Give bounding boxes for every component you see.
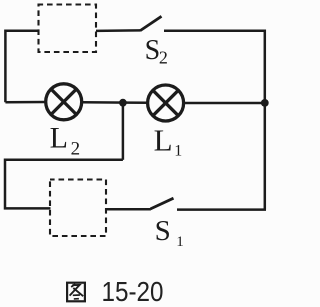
wire junction drop [122,103,125,160]
caption character 图 (drawn) [67,283,85,302]
wire S1 to right vertical [177,208,266,211]
switch S2 lever [140,16,161,30]
wire middle left segment [5,101,46,104]
battery placeholder dashed box top [39,5,97,53]
svg-text:15-20: 15-20 [102,276,164,307]
node junction dot right [261,99,269,107]
svg-text:L: L [154,122,173,157]
node junction dot center [119,99,127,107]
wire middle between lamps [82,101,149,104]
svg-text:1: 1 [176,234,184,250]
wire lower-left bracket [5,160,123,209]
svg-text:2: 2 [159,47,168,67]
wire top-left bracket (left vertical + top horizontal to box) [5,31,38,103]
wire middle right segment [183,102,265,105]
svg-text:L: L [50,122,68,155]
wire right vertical [264,30,267,210]
lamp L1 [148,85,184,121]
switch S1 lever [151,198,174,209]
wire S2 to right vertical [164,29,266,32]
wire box1 to switch S2 [96,29,141,32]
svg-text:1: 1 [174,142,182,159]
wire box2 to switch S1 [106,208,151,211]
lamp L2 [46,84,82,120]
svg-text:2: 2 [71,138,81,159]
svg-text:S: S [145,35,161,66]
svg-text:S: S [155,215,171,247]
battery placeholder dashed box bottom [50,180,106,237]
